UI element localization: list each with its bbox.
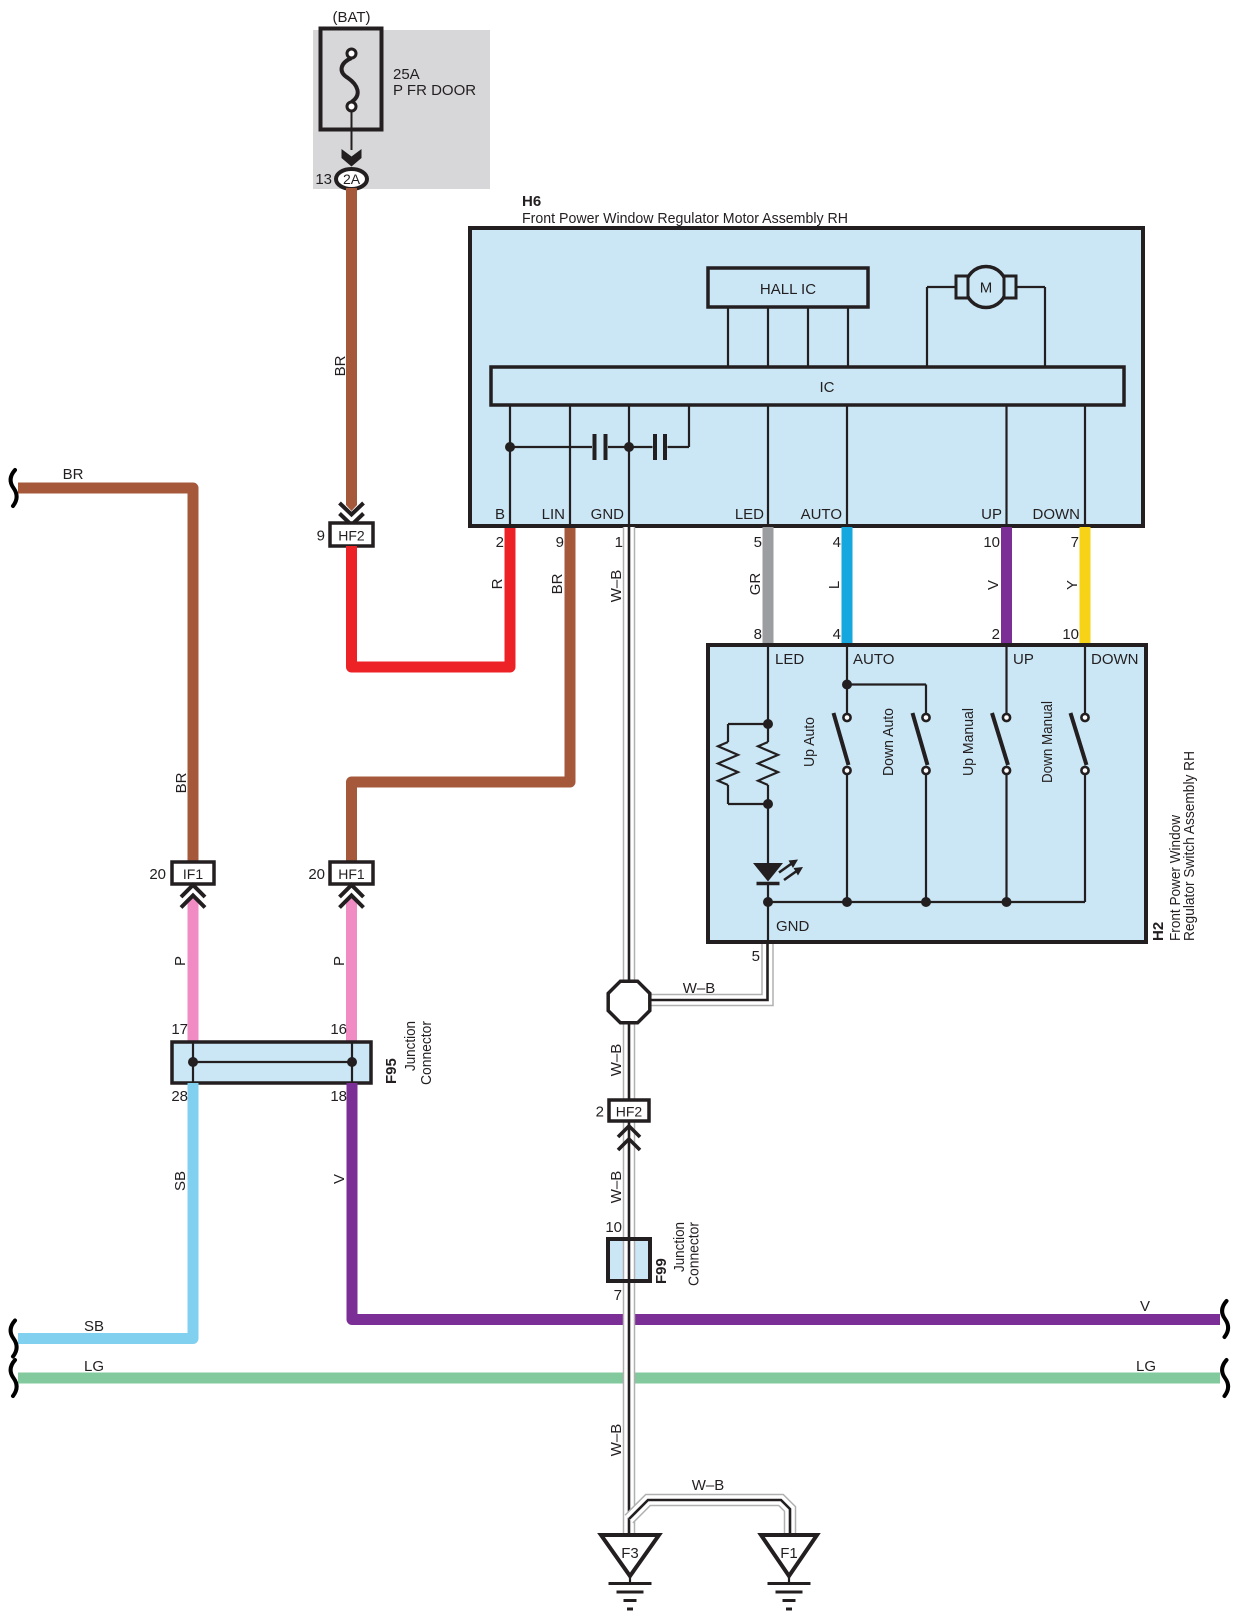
svg-text:Up Auto: Up Auto (801, 717, 818, 767)
svg-text:BR: BR (173, 772, 190, 793)
capacitor C1 (595, 434, 606, 460)
svg-text:16: 16 (330, 1021, 347, 1038)
connector HF2 (pin 9) (330, 523, 373, 546)
svg-text:W–B: W–B (692, 1477, 725, 1494)
connector HF1 (pin 20) (330, 862, 373, 884)
svg-text:W–B: W–B (683, 980, 716, 997)
switch Up Auto (801, 713, 851, 902)
svg-text:9: 9 (556, 534, 564, 551)
svg-text:20: 20 (308, 866, 325, 883)
UP pin wire (1005, 645, 1007, 715)
svg-text:P: P (172, 956, 189, 966)
junction connector F95 (172, 1042, 371, 1083)
fuse F 25A P FR DOOR (321, 29, 382, 151)
svg-text:BR: BR (332, 355, 349, 376)
chevrons below IF1 (181, 885, 205, 908)
svg-text:Up Manual: Up Manual (960, 708, 977, 776)
wire L (H6 AUTO to H2) (842, 527, 853, 646)
motor M (927, 287, 1045, 367)
ground F3 (601, 1535, 659, 1609)
break symbol right (1222, 1360, 1228, 1396)
junction connector F99 (fill) (608, 1239, 650, 1281)
svg-text:UP: UP (1013, 651, 1034, 668)
AUTO pin wire (847, 645, 926, 715)
HALL IC box (708, 268, 868, 307)
ground F1 (761, 1535, 817, 1609)
switch Up Manual (960, 708, 1010, 902)
wire P (IF1 to F95 pin 17) (188, 897, 199, 1044)
junction dot (LED line top) (763, 719, 773, 729)
svg-text:V: V (985, 580, 1002, 590)
svg-text:LG: LG (1136, 1358, 1156, 1375)
wire V (F95 pin 18 to break right) (352, 1083, 1220, 1320)
wire W-B (H6 GND down to octagon) (623, 527, 636, 982)
capacitor C2 (655, 434, 665, 460)
svg-text:IC: IC (820, 379, 835, 396)
motor assembly block H6 (470, 228, 1143, 526)
svg-text:10: 10 (605, 1219, 622, 1236)
svg-text:20: 20 (149, 866, 166, 883)
wire V (H6 UP to H2) (1001, 527, 1012, 646)
junction dot (bus at Up Auto) (842, 897, 852, 907)
LED pin wire (767, 645, 769, 902)
wire W-B (octagon to ground F3) (623, 1022, 636, 1537)
connector HF2 (pin 2) (609, 1100, 649, 1121)
svg-text:H2: H2 (1150, 922, 1167, 941)
junction dot at B (505, 442, 515, 452)
break symbol (11, 470, 17, 506)
svg-text:M: M (980, 280, 993, 297)
svg-text:V: V (331, 1174, 348, 1184)
svg-text:10: 10 (983, 534, 1000, 551)
svg-text:F3: F3 (621, 1545, 639, 1562)
svg-text:25A: 25A (393, 66, 420, 83)
svg-text:B: B (495, 506, 505, 523)
svg-text:Down Auto: Down Auto (880, 708, 897, 776)
svg-text:AUTO: AUTO (853, 651, 894, 668)
svg-text:5: 5 (754, 534, 762, 551)
wire P (HF1 to F95 pin 16) (346, 897, 357, 1044)
GND bus wire in H2 (768, 901, 1085, 903)
IC bar (491, 367, 1124, 405)
svg-text:W–B: W–B (608, 570, 625, 603)
svg-text:Junction: Junction (402, 1021, 419, 1071)
junction dot (LED line bottom) (763, 799, 773, 809)
wire BR (left, break to IF1) (18, 488, 193, 862)
LED D1 (753, 863, 783, 882)
svg-text:Regulator Switch Assembly RH: Regulator Switch Assembly RH (1181, 751, 1198, 941)
svg-text:W–B: W–B (608, 1171, 625, 1204)
wire R (HF2 to H6 pin B) (352, 527, 511, 667)
switch Down Manual (1039, 701, 1089, 902)
switch assembly block H2 (708, 645, 1146, 942)
wires HALL IC to IC (728, 307, 848, 367)
svg-text:DOWN: DOWN (1033, 506, 1081, 523)
svg-text:10: 10 (1062, 626, 1079, 643)
internal pin wires from IC (510, 405, 1085, 525)
svg-text:BR: BR (549, 573, 566, 594)
svg-text:HF2: HF2 (616, 1104, 643, 1120)
break symbol right (1222, 1301, 1228, 1337)
svg-text:7: 7 (1071, 534, 1079, 551)
svg-text:LED: LED (775, 651, 804, 668)
DOWN pin wire (1084, 645, 1086, 715)
svg-text:DOWN: DOWN (1091, 651, 1139, 668)
svg-text:Connector: Connector (686, 1222, 703, 1286)
wire W-B (branch to F1) (629, 1500, 790, 1537)
svg-text:LIN: LIN (542, 506, 565, 523)
svg-text:8: 8 (754, 626, 762, 643)
GND pin wire (767, 902, 769, 940)
svg-text:H6: H6 (522, 193, 541, 210)
svg-text:W–B: W–B (608, 1424, 625, 1457)
chevrons below HF2 (618, 1126, 640, 1150)
svg-text:9: 9 (317, 528, 325, 545)
break symbol (11, 1321, 17, 1357)
svg-text:4: 4 (833, 534, 841, 551)
svg-text:GND: GND (776, 918, 810, 935)
svg-text:AUTO: AUTO (801, 506, 842, 523)
svg-text:LED: LED (735, 506, 764, 523)
junction dot (bus at Down Auto) (921, 897, 931, 907)
wire GR (H6 LED to H2) (763, 527, 774, 646)
svg-text:LG: LG (84, 1358, 104, 1375)
svg-text:7: 7 (614, 1287, 622, 1304)
chevrons into HF2 (340, 503, 364, 525)
switch Down Auto (880, 708, 930, 902)
svg-text:R: R (489, 578, 506, 589)
wire LG (full width) (18, 1373, 1220, 1384)
arrow into connector 2A (342, 149, 362, 167)
svg-text:IF1: IF1 (183, 866, 203, 882)
svg-text:W–B: W–B (608, 1044, 625, 1077)
resistor R2 (right, on LED line) (767, 724, 769, 804)
svg-text:Down Manual: Down Manual (1039, 701, 1056, 783)
wire BR (H6 pin LIN to HF1) (352, 527, 571, 862)
svg-text:2: 2 (496, 534, 504, 551)
wire BR from 2A to HF2 (346, 188, 357, 511)
svg-text:GR: GR (747, 573, 764, 596)
svg-text:HALL IC: HALL IC (760, 281, 816, 298)
svg-text:F1: F1 (780, 1545, 798, 1562)
junction dot (bus at Up Manual) (1002, 897, 1012, 907)
wire W-B (H2 GND to octagon) (648, 944, 768, 1000)
octagon joint (608, 981, 650, 1023)
connector 2A (pin 13) (336, 169, 367, 189)
break symbol left (11, 1360, 17, 1396)
svg-text:17: 17 (171, 1021, 188, 1038)
svg-text:2: 2 (992, 626, 1000, 643)
svg-text:V: V (1140, 1298, 1150, 1315)
svg-text:18: 18 (330, 1088, 347, 1105)
svg-text:L: L (826, 581, 843, 589)
svg-text:P: P (331, 956, 348, 966)
svg-text:F99: F99 (653, 1258, 670, 1284)
fuse block background (313, 30, 490, 189)
svg-text:28: 28 (171, 1088, 188, 1105)
svg-text:5: 5 (752, 948, 760, 965)
svg-text:2A: 2A (343, 171, 361, 187)
svg-text:BR: BR (63, 466, 84, 483)
svg-text:1: 1 (615, 534, 623, 551)
svg-text:4: 4 (833, 626, 841, 643)
svg-text:UP: UP (981, 506, 1002, 523)
junction dot AUTO (842, 680, 852, 690)
svg-text:P FR DOOR: P FR DOOR (393, 82, 476, 99)
svg-text:F95: F95 (383, 1058, 400, 1084)
svg-text:Y: Y (1064, 580, 1081, 590)
junction connector F99 (border) (608, 1239, 650, 1281)
svg-text:13: 13 (315, 171, 332, 188)
svg-text:SB: SB (172, 1171, 189, 1191)
svg-text:Front Power Window Regulator M: Front Power Window Regulator Motor Assem… (522, 210, 848, 227)
resistor R1 (left) (728, 724, 768, 804)
chevrons below HF1 (340, 885, 364, 908)
wire Y (H6 DOWN to H2) (1080, 527, 1091, 646)
svg-text:HF1: HF1 (338, 866, 365, 882)
svg-text:2: 2 (596, 1104, 604, 1121)
svg-text:SB: SB (84, 1318, 104, 1335)
svg-text:HF2: HF2 (338, 528, 365, 544)
wire SB (F95 pin 28 to break) (18, 1083, 193, 1339)
connector IF1 (pin 20) (172, 862, 214, 884)
junction dot at GND (624, 442, 634, 452)
svg-text:Connector: Connector (418, 1021, 435, 1085)
svg-text:GND: GND (591, 506, 625, 523)
junction dot (bus at LED) (763, 897, 773, 907)
svg-text:(BAT): (BAT) (332, 9, 370, 26)
